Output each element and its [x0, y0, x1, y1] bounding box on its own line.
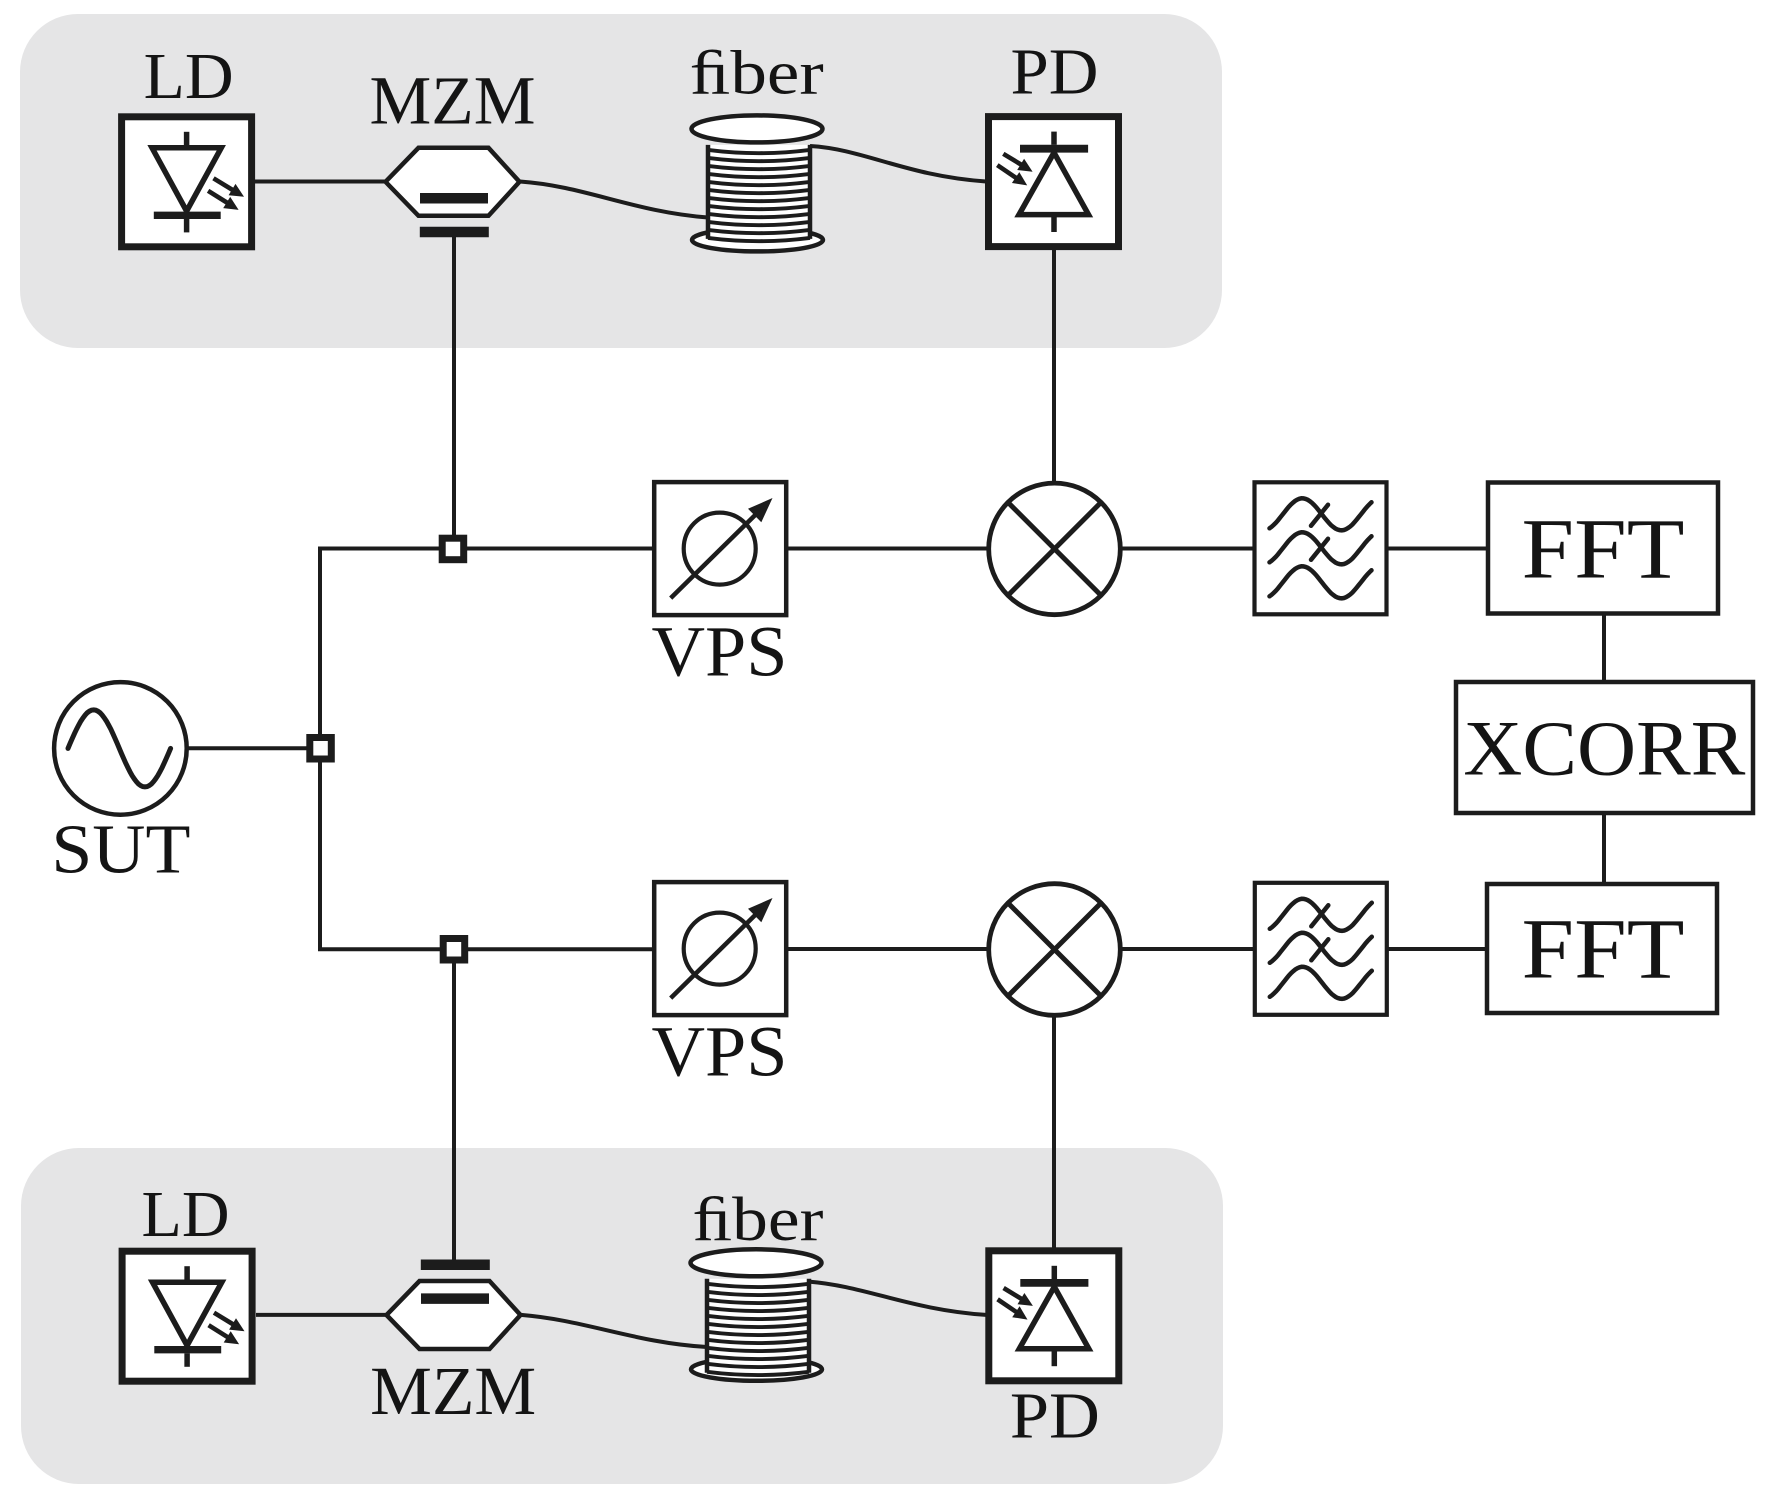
photodiode PD (bottom arm)	[989, 1251, 1119, 1381]
low-pass filter (bottom arm)	[1255, 883, 1387, 1015]
XCORR block	[1456, 682, 1753, 813]
svg-text:ﬁber: ﬁber	[692, 1186, 823, 1254]
wire MZM1 electrode to node B	[452, 237, 456, 536]
signal source SUT (sine generator)	[54, 682, 187, 815]
wire mixer 1 to filter 1	[1122, 547, 1254, 551]
node B (junction to MZM1 drive)	[442, 538, 464, 560]
node A (power splitter at SUT)	[310, 738, 332, 760]
svg-text:FFT: FFT	[1522, 901, 1685, 997]
svg-text:PD: PD	[1010, 1380, 1100, 1453]
wire SUT to node A	[187, 746, 307, 750]
wire mixer 2 to filter 2	[1122, 947, 1254, 951]
Mach-Zehnder modulator MZM (top arm)	[386, 148, 520, 232]
wire LD1 to MZM1	[255, 180, 386, 184]
fiber spool (bottom arm)	[691, 1249, 823, 1381]
svg-text:MZM: MZM	[370, 1353, 536, 1429]
svg-text:XCORR: XCORR	[1463, 705, 1745, 792]
low-pass filter (top arm)	[1255, 482, 1387, 614]
svg-text:LD: LD	[144, 40, 234, 113]
svg-text:ﬁber: ﬁber	[690, 40, 824, 108]
wire MZM2 output to fiber spool 2	[521, 1315, 707, 1347]
wire VPS2 to mixer 2	[787, 947, 988, 951]
Mach-Zehnder modulator MZM (bottom arm)	[387, 1265, 521, 1349]
laser diode LD (bottom arm)	[122, 1251, 252, 1381]
wire fiber spool 2 to PD2	[809, 1282, 986, 1315]
svg-text:SUT: SUT	[51, 812, 190, 889]
fiber spool (top arm)	[692, 115, 824, 251]
wire node C to MZM2 electrode	[452, 962, 456, 1262]
wire LD2 to MZM2	[256, 1313, 387, 1317]
wire MZM1 output to fiber spool 1	[520, 182, 708, 218]
wire filter 1 to FFT1	[1387, 547, 1487, 551]
svg-text:LD: LD	[142, 1178, 230, 1251]
svg-text:FFT: FFT	[1522, 501, 1685, 597]
laser diode LD (top arm)	[122, 117, 252, 247]
mixer (top arm)	[989, 483, 1121, 615]
svg-text:VPS: VPS	[652, 612, 788, 692]
wire FFT1 to XCORR	[1602, 615, 1606, 681]
wire PD1 to mixer 1 (LO port)	[1052, 249, 1056, 482]
mixer (bottom arm)	[989, 884, 1121, 1016]
wire mixer 2 (LO port) to PD2	[1052, 1017, 1056, 1248]
wire XCORR to FFT2	[1602, 814, 1606, 884]
node C (junction to MZM2 drive)	[443, 939, 465, 961]
wire VPS1 to mixer 1	[787, 547, 988, 551]
svg-text:MZM: MZM	[370, 63, 536, 139]
variable phase shifter VPS (bottom arm)	[654, 882, 786, 1015]
wire fiber spool 1 to PD1	[810, 146, 986, 182]
wire node A up to node B	[320, 549, 440, 736]
wire node C to VPS2	[467, 947, 654, 951]
FFT block (top arm)	[1488, 483, 1718, 614]
wire node A down to node C	[320, 761, 441, 949]
wire node B to VPS1	[466, 547, 654, 551]
wire filter 2 to FFT2	[1387, 947, 1486, 951]
FFT block (bottom arm)	[1487, 884, 1717, 1013]
svg-text:VPS: VPS	[652, 1012, 788, 1092]
photodiode PD (top arm)	[989, 117, 1119, 247]
optical link shaded region (bottom)	[21, 1148, 1223, 1484]
svg-text:PD: PD	[1011, 36, 1099, 109]
variable phase shifter VPS (top arm)	[654, 482, 786, 615]
optical link shaded region (top)	[20, 14, 1222, 348]
